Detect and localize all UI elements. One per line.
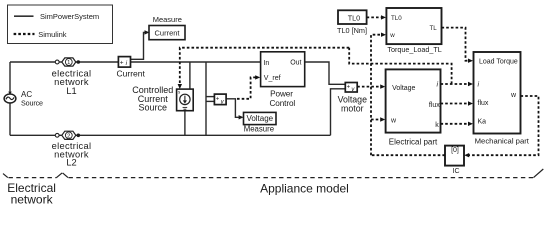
svg-text:2: 2: [67, 133, 70, 139]
block Power Control: [261, 52, 305, 87]
arrowhead into Power Control V_ref: [255, 75, 260, 79]
arrowhead into Mechanical part Load Torque: [468, 59, 473, 63]
wire bottom horizontal: [10, 134, 55, 136]
arrowhead into controlled current source: [178, 84, 182, 89]
svg-text:Out: Out: [290, 60, 301, 67]
svg-text:TL: TL: [429, 25, 437, 32]
junction dot: [77, 134, 81, 138]
arrowhead into Mechanical part Ka: [468, 122, 473, 126]
block Voltage Measure: [244, 112, 277, 124]
wire riser to Measure Current: [131, 32, 147, 59]
block Torque_Load_TL: [386, 8, 441, 44]
dashed wire w wrap to IC: [467, 96, 539, 155]
svg-text:w: w: [389, 32, 395, 39]
svg-text:L1: L1: [66, 86, 76, 96]
svg-text:+: +: [120, 60, 124, 67]
wire CCS top: [189, 62, 191, 89]
svg-text:+: +: [216, 96, 220, 102]
dashed wire V_ref: [237, 77, 257, 98]
svg-text:Torque_Load_TL: Torque_Load_TL: [387, 45, 441, 54]
svg-text:In: In: [263, 60, 269, 67]
svg-text:Measure: Measure: [244, 125, 274, 134]
svg-text:Appliance model: Appliance model: [260, 182, 349, 196]
dashed wire k to Ka: [441, 123, 471, 125]
svg-text:Source: Source: [21, 98, 43, 107]
svg-text:w: w: [390, 118, 397, 125]
arrowhead into IC: [464, 153, 469, 157]
legend box: [8, 5, 113, 44]
dashed wire Voltage motor to Electrical part: [357, 86, 382, 88]
arrow into Voltage Measure: [239, 115, 244, 119]
svg-text:Voltage: Voltage: [246, 114, 273, 123]
svg-text:TL0: TL0: [348, 13, 360, 22]
svg-text:w: w: [510, 92, 517, 99]
arrowhead into Electrical part Voltage: [380, 84, 385, 88]
brace appliance model: [63, 173, 68, 178]
wire +v motor return: [331, 89, 346, 136]
legend dashed line Simulink: [14, 33, 35, 35]
wire left vertical: [9, 62, 11, 135]
svg-text:Source: Source: [139, 103, 168, 113]
svg-text:Ka: Ka: [478, 118, 487, 125]
svg-text:Voltage: Voltage: [392, 85, 415, 92]
arrowhead into Mechanical part flux: [468, 101, 473, 105]
node open circle L2: [55, 133, 59, 137]
AC source: [4, 94, 16, 103]
arrow into Measure Current: [145, 30, 150, 34]
wire vertical mid: [205, 62, 207, 135]
arrowhead into Torque_Load_TL TL0: [381, 15, 386, 19]
svg-text:SimPowerSystem: SimPowerSystem: [40, 12, 99, 21]
svg-text:V_ref: V_ref: [264, 75, 281, 82]
wire Power Control out: [305, 62, 346, 84]
voltage motor sensor +v: [345, 83, 357, 94]
wire top horizontal: [10, 61, 55, 63]
dashed wire TL0 to Torque_Load_TL: [367, 16, 384, 18]
dashed wire CCS control: [180, 48, 349, 87]
voltage sensor +v: [214, 94, 226, 105]
svg-text:TL0: TL0: [391, 15, 402, 22]
current sensor +i: [118, 57, 130, 68]
svg-text:Current: Current: [117, 69, 146, 79]
svg-text:Control: Control: [269, 99, 295, 108]
svg-text:L2: L2: [66, 158, 76, 168]
node open circle L1: [55, 60, 59, 64]
electrical network L2: [62, 131, 76, 139]
svg-text:network: network: [11, 193, 54, 207]
svg-text:Mechanical part: Mechanical part: [475, 136, 530, 145]
svg-text:IC: IC: [453, 168, 460, 175]
dashed wire i feedback: [441, 83, 471, 85]
svg-text:1: 1: [67, 60, 70, 66]
svg-text:Simulink: Simulink: [38, 30, 67, 39]
arrowhead into Torque_Load_TL w: [381, 33, 386, 37]
svg-text:Measure: Measure: [153, 15, 182, 24]
svg-text:Electrical part: Electrical part: [389, 137, 438, 146]
block Mechanical part: [474, 52, 521, 134]
wire stub to +v: [206, 96, 214, 98]
svg-text:[0]: [0]: [451, 147, 459, 154]
wire CCS bottom: [184, 111, 186, 136]
svg-text:+: +: [347, 84, 351, 90]
svg-text:motor: motor: [341, 104, 364, 114]
svg-text:flux: flux: [478, 100, 489, 107]
svg-text:Current: Current: [154, 28, 180, 37]
svg-text:k: k: [435, 122, 439, 129]
dashed wire w distribution: [371, 35, 383, 156]
svg-text:TL0 [Nm]: TL0 [Nm]: [337, 26, 367, 35]
dashed wire flux: [441, 103, 471, 105]
electrical network L1: [62, 58, 76, 66]
junction dot: [77, 60, 81, 64]
arrowhead into Electrical part w: [380, 117, 385, 121]
controlled current source block: [177, 89, 194, 111]
legend solid line SimPowerSystem: [14, 15, 34, 17]
block TL0: [338, 10, 367, 24]
block Electrical part: [386, 69, 441, 132]
block Measure Current: [149, 26, 185, 40]
arrowhead into Mechanical part i: [468, 82, 473, 86]
block IC: [445, 146, 464, 166]
svg-text:flux: flux: [429, 102, 440, 109]
dashed wire TL to Load Torque: [442, 28, 471, 61]
brace electrical network: [3, 169, 543, 178]
svg-text:Power: Power: [270, 89, 293, 98]
wire +v out to Voltage Measure: [226, 99, 241, 118]
svg-text:Load Torque: Load Torque: [479, 58, 518, 65]
